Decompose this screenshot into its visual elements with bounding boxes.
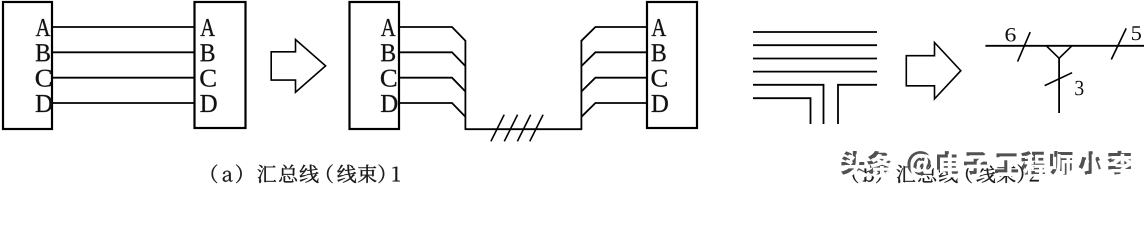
box U3 (left device of diagram b bundle) <box>350 2 400 129</box>
box U1 (left device of diagram a) <box>3 2 52 129</box>
bus rail line 4 <box>753 71 877 73</box>
caption (a) 汇总线（线束）1 <box>212 164 400 183</box>
wire D (U1-U2) <box>52 102 195 104</box>
wire B into bundle (left) <box>399 52 465 66</box>
wire C (U1-U2) <box>52 77 195 79</box>
bus rail line 2 <box>753 44 877 46</box>
block arrow 1 <box>271 40 325 93</box>
label 5 <box>1132 26 1141 40</box>
bus rail line 5 right branch (bends down) <box>838 85 877 124</box>
bundle slash mark 3 <box>517 115 530 142</box>
pin labels A B C D of U4 <box>652 19 668 112</box>
watermark 头条@电子工程师小李 (white emboss layer) <box>844 154 1135 178</box>
watermark 头条@电子工程师小李 (gray layer) <box>841 151 1132 175</box>
bundle bus wire (bottom) <box>465 128 583 130</box>
bundle slash mark 4 <box>530 115 543 142</box>
wire B (U1-U2) <box>52 51 195 53</box>
bus rail line 1 <box>753 31 877 33</box>
wire A (U1-U2) <box>52 26 195 28</box>
wire C into bundle (left) <box>399 78 465 92</box>
pin labels A B C D of U3 <box>381 19 397 112</box>
group slash (5 conductors) <box>1111 28 1126 59</box>
branch wire down <box>1058 58 1060 113</box>
wire C out of bundle (right) <box>581 78 648 92</box>
caption (b) 汇总线（线束）2 <box>853 164 1039 183</box>
pin labels A B C D of U1 <box>36 19 52 112</box>
wire A out of bundle (right) <box>581 27 648 41</box>
group slash (6 conductors) <box>1018 32 1031 62</box>
bus rail line 5 left branch (bends down) <box>753 85 824 124</box>
bus rail line 3 <box>753 58 877 60</box>
block arrow 2 <box>906 43 961 99</box>
wire D out of bundle (right) <box>581 103 648 117</box>
bus rail line 6 left branch (bends down) <box>753 98 811 124</box>
label 6 <box>1005 28 1015 41</box>
bundle slash mark 1 <box>491 115 504 142</box>
pin labels A B C D of U2 <box>200 19 216 112</box>
single-line bus wire <box>985 45 1144 47</box>
bundle right vertical wire <box>580 40 582 129</box>
bundle left vertical wire <box>464 40 466 129</box>
wire D into bundle (left) <box>399 103 465 117</box>
box U4 (right device of diagram b bundle) <box>647 2 697 128</box>
wire B out of bundle (right) <box>581 52 648 66</box>
box U2 (right device of diagram a) <box>195 2 246 128</box>
wire A into bundle (left) <box>399 27 465 41</box>
branch slash (3 conductors) <box>1045 73 1072 86</box>
breakout triangle <box>1046 46 1072 59</box>
bundle slash mark 2 <box>504 115 517 142</box>
label 3 <box>1075 81 1083 95</box>
